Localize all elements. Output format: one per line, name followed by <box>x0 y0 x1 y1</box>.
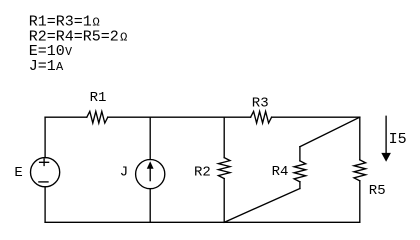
wire R5 branch upper <box>359 117 361 160</box>
svg-text:J: J <box>120 165 128 181</box>
wire R5 branch lower <box>359 181 361 223</box>
wire E branch upper <box>44 117 46 157</box>
wire R4 upper vertical <box>299 147 301 161</box>
current source J <box>136 159 165 188</box>
arrow shaft of J <box>149 168 151 181</box>
wire R2 branch upper <box>223 117 225 157</box>
svg-text:R3: R3 <box>252 96 269 112</box>
arrowhead of J <box>147 161 154 168</box>
wire diagonal R4 bottom <box>224 189 300 223</box>
resistor R3 <box>251 111 272 123</box>
arrow shaft I5 <box>385 116 387 153</box>
svg-text:R5: R5 <box>369 183 386 199</box>
arrowhead of I5 <box>381 153 391 162</box>
svg-text:E: E <box>14 165 22 181</box>
wire bottom horizontal <box>45 221 360 223</box>
wire R2 branch lower <box>223 179 225 223</box>
svg-text:R1: R1 <box>90 90 107 106</box>
resistor R4 <box>294 161 306 182</box>
wire top left horizontal <box>45 116 87 118</box>
wire diagonal R4 top <box>300 117 360 146</box>
voltage source E <box>31 158 60 187</box>
wire top middle horizontal <box>108 116 251 118</box>
wire R4 lower vertical <box>299 182 301 189</box>
svg-text:J=1A: J=1A <box>29 58 64 75</box>
plus sign of E <box>40 159 49 165</box>
resistor R2 <box>218 158 230 179</box>
wire J branch lower <box>149 189 151 223</box>
wire J branch upper <box>149 117 151 159</box>
resistor R1 <box>87 111 108 123</box>
resistor R5 <box>354 160 366 181</box>
svg-text:R2: R2 <box>194 165 211 181</box>
wire E branch lower <box>44 187 46 223</box>
minus sign of E <box>39 181 48 183</box>
wire top right horizontal <box>272 116 360 118</box>
svg-text:I5: I5 <box>389 131 407 148</box>
svg-text:R4: R4 <box>272 164 289 180</box>
